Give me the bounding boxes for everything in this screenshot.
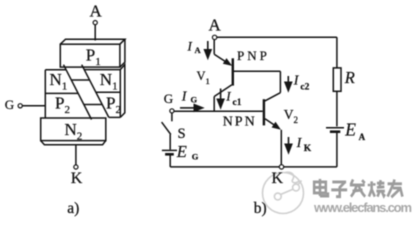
svg-text:K: K	[272, 170, 284, 187]
svg-text:A: A	[90, 2, 103, 21]
svg-text:N1: N1	[100, 70, 118, 93]
svg-text:S: S	[178, 126, 186, 142]
svg-text:A: A	[209, 15, 222, 34]
svg-text:N1: N1	[50, 70, 68, 93]
svg-text:R: R	[344, 68, 355, 87]
svg-text:I: I	[293, 73, 300, 88]
svg-text:K: K	[304, 144, 312, 154]
svg-text:V1: V1	[197, 69, 210, 86]
svg-text:G: G	[191, 94, 198, 104]
svg-text:E: E	[344, 120, 356, 140]
svg-text:PNP: PNP	[237, 48, 270, 63]
svg-text:E: E	[176, 142, 187, 161]
svg-text:P2: P2	[106, 94, 121, 117]
svg-text:G: G	[192, 151, 199, 161]
svg-text:G: G	[164, 91, 173, 106]
svg-text:b): b)	[254, 200, 267, 217]
svg-text:N2: N2	[65, 120, 83, 143]
svg-text:I: I	[181, 90, 188, 105]
svg-text:I: I	[225, 88, 231, 103]
svg-text:K: K	[71, 170, 83, 187]
svg-text:c1: c1	[233, 98, 242, 108]
svg-text:V2: V2	[284, 107, 298, 125]
svg-text:A: A	[359, 132, 366, 142]
svg-text:G: G	[5, 97, 14, 112]
svg-text:NPN: NPN	[223, 114, 257, 129]
svg-text:c2: c2	[300, 83, 309, 93]
svg-text:P2: P2	[55, 94, 70, 117]
svg-text:www.elecfans.com: www.elecfans.com	[313, 200, 412, 215]
svg-text:A: A	[195, 45, 202, 55]
svg-text:P1: P1	[86, 46, 101, 69]
svg-text:I: I	[187, 38, 193, 53]
svg-text:I: I	[296, 136, 303, 151]
svg-text:a): a)	[67, 200, 79, 217]
